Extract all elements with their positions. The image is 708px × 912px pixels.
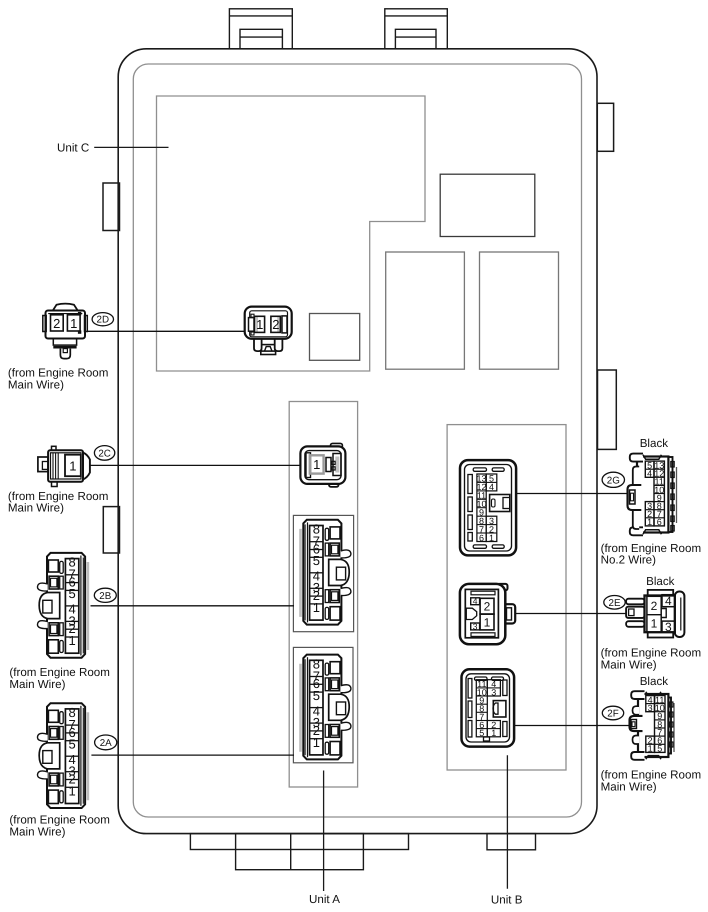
svg-text:Unit C: Unit C: [57, 142, 89, 155]
svg-text:Black: Black: [640, 437, 669, 450]
svg-text:Main Wire): Main Wire): [8, 502, 64, 515]
svg-text:Unit B: Unit B: [491, 894, 523, 907]
svg-text:No.2 Wire): No.2 Wire): [601, 554, 657, 567]
svg-text:2F: 2F: [607, 709, 618, 720]
svg-text:Main Wire): Main Wire): [9, 826, 65, 839]
connector frame 2A mate: [293, 647, 353, 762]
wire 2B: [91, 605, 295, 607]
text from engine room main wire (2E): [601, 647, 702, 672]
top mounting tab left: [229, 9, 292, 49]
connector 2G (external 13-pin, black): [628, 454, 677, 536]
svg-text:5: 5: [479, 728, 484, 738]
connector 2F mate (internal 11-pin, Unit B): [462, 669, 515, 746]
label ellipse 2E: [604, 596, 625, 610]
junction block outer case: [118, 49, 597, 834]
relay cavity middle: [386, 252, 465, 369]
top mounting tab right: [385, 9, 448, 49]
relay cavity right: [480, 252, 559, 369]
connector 2D mate (internal 2-pin): [245, 307, 292, 355]
svg-text:1: 1: [489, 533, 494, 543]
wire 2C: [90, 464, 302, 466]
connector 2E mate (internal 4-pin, Unit B): [460, 584, 515, 644]
svg-text:2C: 2C: [98, 448, 111, 459]
svg-text:2: 2: [484, 600, 491, 614]
svg-text:2A: 2A: [100, 738, 112, 749]
text black (2E): [646, 575, 675, 588]
text from engine room main wire (2F): [601, 769, 702, 794]
text from engine room main wire (2D): [8, 367, 109, 392]
svg-text:3: 3: [648, 703, 653, 713]
svg-text:3: 3: [491, 687, 496, 697]
connector 2E (external 4-pin, black): [626, 590, 684, 638]
connector 2D (external, from engine room main wire): [43, 304, 88, 359]
svg-text:3: 3: [473, 621, 478, 631]
left mounting boss lower: [103, 507, 119, 553]
label ellipse 2B: [94, 588, 116, 602]
left mounting boss upper: [103, 183, 120, 231]
Unit B outline: [447, 425, 566, 770]
svg-text:4: 4: [647, 469, 652, 479]
svg-text:1: 1: [70, 316, 77, 331]
svg-text:5: 5: [657, 744, 662, 754]
bottom feet: [190, 834, 535, 870]
label ellipse 2D: [92, 313, 113, 326]
Unit A outline: [289, 402, 357, 788]
svg-text:Black: Black: [646, 575, 675, 588]
right mounting boss upper: [597, 103, 613, 151]
wire 2A: [91, 754, 294, 756]
svg-text:Main Wire): Main Wire): [8, 379, 64, 392]
svg-text:3: 3: [665, 620, 672, 634]
wire 2G: [516, 493, 630, 495]
wire 2D: [87, 330, 246, 332]
text black (2G): [640, 437, 669, 450]
Unit C outline: [157, 96, 426, 371]
label ellipse 2F: [602, 706, 623, 720]
svg-text:2B: 2B: [99, 591, 111, 602]
svg-text:1: 1: [69, 458, 76, 473]
label ellipse 2G: [602, 472, 624, 487]
label Unit C: [57, 142, 169, 155]
connector 2G mate (internal 13-pin, Unit B): [460, 460, 516, 555]
text from engine room main wire (2C): [8, 490, 109, 515]
text from engine room main wire (2A): [9, 814, 110, 839]
connector 2F (external 11-pin, black): [630, 691, 675, 760]
right mounting boss lower: [598, 370, 617, 449]
wire 2E: [515, 613, 627, 615]
svg-text:Black: Black: [640, 675, 669, 688]
svg-text:1: 1: [648, 744, 653, 754]
svg-text:1: 1: [491, 728, 496, 738]
relay cavity small square: [310, 314, 360, 361]
connector frame 2B mate: [293, 515, 353, 631]
svg-text:1: 1: [647, 517, 652, 527]
connector 2A (external 8-pin): [37, 703, 87, 808]
connector 2A mate (internal 8-pin, Unit A): [301, 655, 351, 760]
text from engine room main wire (2B): [9, 666, 110, 691]
connector 2C (external 1-pin): [38, 446, 90, 486]
svg-text:Main Wire): Main Wire): [601, 781, 657, 794]
svg-text:Main Wire): Main Wire): [9, 678, 65, 691]
svg-text:2E: 2E: [609, 598, 621, 609]
relay cavity top right: [440, 174, 535, 236]
svg-text:6: 6: [479, 533, 484, 543]
svg-text:1: 1: [651, 617, 658, 631]
label ellipse 2A: [95, 735, 117, 750]
svg-text:2G: 2G: [607, 475, 620, 486]
junction block inner edge: [133, 64, 581, 817]
label Unit A: [309, 771, 340, 906]
svg-text:2D: 2D: [97, 315, 110, 326]
svg-text:1: 1: [256, 317, 263, 332]
svg-text:4: 4: [665, 594, 672, 608]
svg-text:4: 4: [473, 596, 478, 606]
wire 2F: [514, 725, 631, 727]
label Unit B: [491, 755, 523, 906]
svg-text:2: 2: [651, 599, 658, 613]
svg-text:Main Wire): Main Wire): [601, 659, 657, 672]
svg-text:4: 4: [489, 482, 494, 492]
svg-text:2: 2: [53, 316, 60, 331]
svg-text:2: 2: [272, 317, 279, 332]
text black (2F): [640, 675, 669, 688]
svg-text:1: 1: [313, 457, 320, 472]
svg-text:Unit A: Unit A: [309, 893, 340, 906]
label ellipse 2C: [94, 446, 114, 461]
svg-text:1: 1: [484, 615, 491, 629]
connector 2C mate (internal 1-pin): [300, 443, 345, 487]
connector 2B (external 8-pin): [37, 553, 87, 658]
connector 2B mate (internal 8-pin, Unit A): [301, 520, 351, 625]
svg-text:6: 6: [657, 517, 662, 527]
text from engine room no.2 wire (2G): [601, 542, 702, 567]
